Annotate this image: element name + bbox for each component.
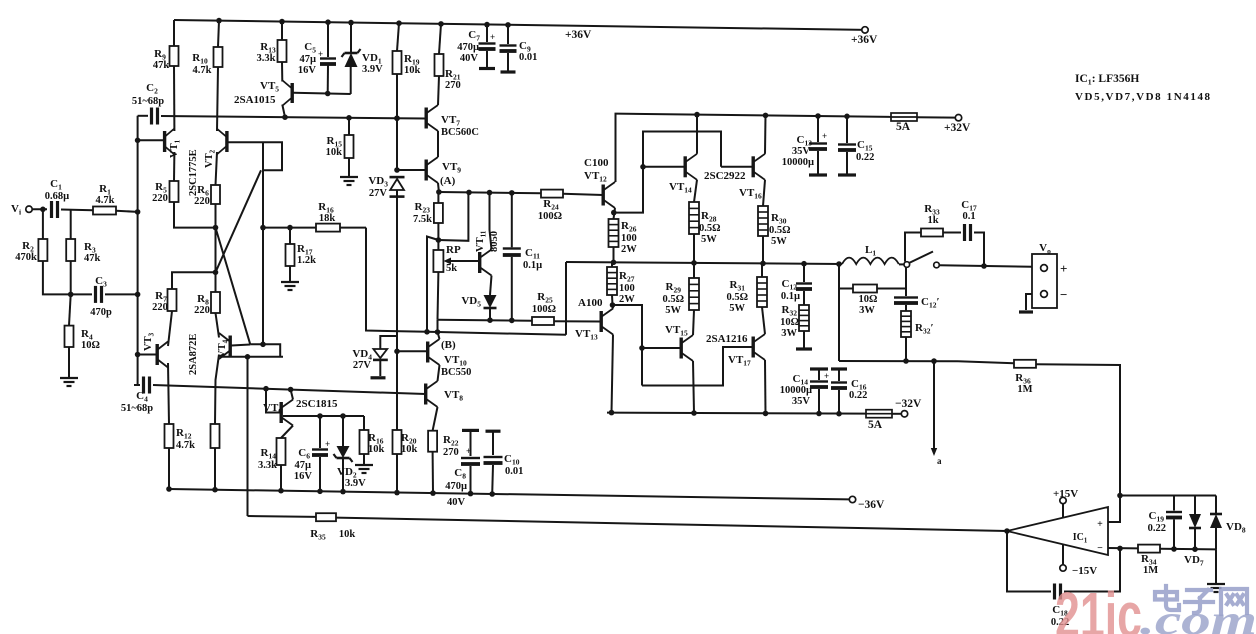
wire VD5 to line1 (489, 308, 491, 320)
resistor R22 270 (428, 431, 437, 452)
wire VT14 collector riser (696, 115, 698, 154)
transistor VT2 2SC1775E (225, 131, 228, 152)
wire C3 to input column (105, 293, 138, 295)
resistor R5 220 (170, 181, 179, 202)
svg-text:47k: 47k (153, 60, 170, 71)
svg-text:−15V: −15V (1072, 565, 1097, 577)
transistor VT6 2SC1815 (280, 402, 283, 423)
svg-text:5W: 5W (771, 236, 787, 247)
svg-text:−32V: −32V (895, 398, 922, 410)
svg-text:0.5Ω: 0.5Ω (769, 225, 791, 236)
wire VT14 emitter to R28 (694, 180, 697, 202)
resistor R1 4.7k (93, 207, 116, 215)
wire R33 to C17 (943, 232, 961, 234)
svg-text:+: + (325, 439, 330, 449)
potentiometer RP 5k (437, 240, 439, 250)
wire VT7 collector to VT9 (437, 131, 439, 157)
resistor R21 270 (438, 21, 444, 27)
svg-text:51~68p: 51~68p (121, 403, 153, 414)
svg-text:+36V: +36V (565, 29, 592, 41)
svg-text:+: + (490, 32, 495, 42)
transistor VT12 C100 (602, 185, 605, 206)
wire +32V bus (616, 114, 891, 117)
resistor R14 3.3k (277, 438, 286, 465)
svg-text:2W: 2W (619, 294, 635, 305)
capacitor C11 0.1u (511, 193, 513, 247)
speaker terminal Vo box (1032, 254, 1057, 308)
wire VT13 node to VT15 base (613, 305, 643, 386)
wire RP wiper to VT11 base (449, 260, 478, 262)
resistor R17 1.2k (289, 228, 291, 244)
terminal -36V (849, 496, 855, 502)
wire cross-couple diagonal A (216, 170, 262, 272)
wire jog to bootstrap column (427, 237, 438, 332)
capacitor C12' (894, 296, 918, 298)
svg-text:BC560C: BC560C (441, 127, 479, 138)
capacitor C15 0.22 (844, 114, 850, 120)
transistor VT5 2SA1015 (281, 62, 283, 82)
svg-text:16V: 16V (298, 65, 317, 76)
resistor R33 1k (921, 229, 943, 237)
wire lower jog to VT4 base (250, 344, 280, 357)
svg-text:47µ: 47µ (299, 54, 316, 65)
capacitor C14 10000u 35V (810, 367, 828, 370)
resistor R36 1M (1014, 360, 1036, 368)
wire L1 to switch (899, 263, 904, 265)
wire minus input line (1108, 547, 1138, 549)
svg-text:10000µ: 10000µ (780, 385, 812, 396)
svg-text:220: 220 (152, 193, 168, 204)
wire C17 to output (974, 233, 984, 267)
transistor VT3 2SA872E (156, 344, 159, 365)
wire VD3 to VD4 (396, 190, 398, 338)
capacitor C3 470p (94, 286, 97, 303)
resistor R10 4.7k (216, 18, 222, 24)
resistor R28 0.5ohm 5W (689, 202, 699, 234)
watermark 21ic (1055, 579, 1256, 634)
wire R32 end (803, 331, 805, 348)
wire R3 to C3 line (70, 261, 72, 294)
svg-text:220: 220 (194, 196, 210, 207)
wire VT17 top to R31 (762, 307, 765, 334)
resistor R32' (905, 305, 907, 311)
wire R25 to VT13 base (554, 320, 601, 322)
svg-text:0.22: 0.22 (849, 390, 867, 401)
wire switch to Vo (940, 265, 1033, 267)
svg-text:4.7k: 4.7k (96, 195, 115, 206)
wire B line C4 to VT8 base (153, 385, 426, 394)
transistor VT7 BC560C (425, 108, 428, 129)
wire VD4 node to VT10 base (397, 338, 428, 351)
wire R29 to bus (693, 263, 695, 278)
svg-text:100: 100 (619, 283, 635, 294)
node op-amp output (1004, 528, 1010, 534)
svg-text:(B): (B) (441, 339, 456, 351)
switch contact (934, 262, 940, 268)
wire VT2 emitter to R6 (216, 152, 218, 185)
svg-text:1k: 1k (927, 215, 938, 226)
wire to rail (214, 448, 216, 490)
wire output bus (566, 262, 842, 264)
svg-text:3.3k: 3.3k (257, 53, 276, 64)
svg-text:2SC1815: 2SC1815 (296, 398, 338, 410)
wire y361 line (839, 360, 958, 362)
svg-text:0.1µ: 0.1µ (781, 291, 800, 302)
wire VT4 base stub (232, 345, 251, 346)
svg-text:(A): (A) (440, 175, 456, 187)
wire R19 to VD3 (396, 74, 398, 171)
wire base drop x263 (262, 142, 264, 344)
wire R16 corner riser (366, 228, 427, 332)
capacitor C6 47u 16V (319, 416, 321, 448)
ground below R17 (289, 266, 291, 281)
svg-text:0.1: 0.1 (962, 211, 975, 222)
svg-text:10Ω: 10Ω (859, 294, 878, 305)
svg-text:+32V: +32V (944, 122, 971, 134)
wire R2 to C3 line (43, 261, 92, 294)
svg-text:0.5Ω: 0.5Ω (726, 292, 748, 303)
resistor R34 1M (1138, 545, 1160, 553)
svg-text:VD5,VD7,VD8 1N4148: VD5,VD7,VD8 1N4148 (1075, 91, 1212, 103)
wire VT16 collector riser (764, 115, 767, 153)
wire VT16 emitter to R30 (763, 180, 765, 206)
wire R12 to rail (168, 448, 170, 489)
wire -32V rail (607, 413, 866, 414)
wire VT5 base line to C5/VD1 (294, 93, 351, 94)
svg-text:C100: C100 (584, 157, 609, 169)
wire feedback to C18 (1007, 531, 1051, 592)
wire riser to R33 (905, 233, 921, 262)
svg-text:27V: 27V (369, 188, 388, 199)
capacitor C16 0.22 (831, 367, 847, 370)
svg-text:−: − (1060, 287, 1067, 302)
svg-text:10k: 10k (404, 65, 421, 76)
svg-text:16V: 16V (294, 471, 313, 482)
transistor VT15 (680, 338, 683, 359)
svg-text:35V: 35V (792, 396, 811, 407)
svg-text:5W: 5W (665, 305, 681, 316)
wire riser left zobel (838, 264, 840, 361)
svg-text:10k: 10k (326, 147, 343, 158)
wire +15V supply (1062, 504, 1064, 518)
svg-text:10Ω: 10Ω (780, 317, 799, 328)
wire VT11 collector to A line (490, 193, 492, 250)
terminal -32V (901, 411, 907, 417)
wire C2 branch on base line (138, 115, 148, 117)
wire lower line y356.8 (220, 356, 283, 358)
wire R20 to rail (396, 454, 398, 493)
svg-text:0.5Ω: 0.5Ω (699, 223, 721, 234)
svg-text:1M: 1M (1017, 384, 1032, 395)
wire VT17 bottom to rail (764, 360, 767, 413)
wire R27 leads (611, 262, 613, 267)
capacitor C8 470u 40V (462, 429, 479, 432)
svg-text:+: + (824, 371, 829, 381)
resistor R19 10k (396, 20, 402, 26)
wire VT2 base jog (228, 142, 282, 170)
wire VT3 emitter to R7 (168, 311, 172, 346)
svg-text:270: 270 (445, 80, 461, 91)
svg-text:470p: 470p (90, 307, 112, 318)
wire resistor to C12' node (877, 288, 906, 290)
wire bias line1 (438, 320, 533, 321)
resistor R35 10k (248, 515, 317, 518)
svg-text:IC1: LF356H: IC1: LF356H (1075, 73, 1139, 87)
svg-text:5W: 5W (701, 234, 717, 245)
op-amp IC1 LF356H (1007, 507, 1108, 555)
resistor R16b 10k (363, 416, 365, 430)
wire VT13 collector node (612, 305, 615, 309)
wire emitter node to base rectangle (614, 132, 721, 213)
terminal +36V right (862, 27, 868, 33)
ground below R15 (348, 158, 350, 176)
zener VD2 3.9V (342, 416, 344, 446)
transistor VT17 2SA1216 (752, 337, 755, 358)
svg-text:2SA1015: 2SA1015 (234, 94, 276, 106)
capacitor C9 0.01 (505, 22, 511, 28)
svg-text:+15V: +15V (1053, 488, 1078, 500)
wire R32' to y361 line (905, 337, 907, 361)
zener VD1 3.9V (348, 20, 354, 26)
svg-text:5W: 5W (729, 303, 745, 314)
wire VT6 bias line y416 (283, 415, 364, 417)
switch pivot (904, 262, 910, 268)
resistor R29 0.5ohm 5W (689, 278, 699, 310)
svg-text:3.9V: 3.9V (362, 64, 383, 75)
svg-text:100Ω: 100Ω (532, 304, 556, 315)
capacitor C5 47u 16V (325, 19, 331, 25)
node Vi-R2 junction (40, 207, 46, 213)
wire VT6 base from B line (266, 389, 280, 413)
resistor R13b under VT4 (211, 424, 220, 448)
svg-text:10k: 10k (368, 444, 385, 455)
svg-text:0.22: 0.22 (856, 152, 874, 163)
wire VT12 emitter node (614, 208, 616, 219)
svg-text:470µ: 470µ (457, 42, 479, 53)
resistor R23 7.5k (437, 192, 439, 203)
wire input to C1 (32, 208, 47, 210)
svg-text:+: + (1060, 261, 1067, 276)
svg-text:27V: 27V (353, 360, 372, 371)
resistor R20 10k (396, 351, 398, 430)
capacitor C1 0.68u (50, 201, 53, 218)
wire VT6 emitter to R14 (281, 426, 293, 439)
svg-text:220: 220 (194, 305, 210, 316)
svg-text:10k: 10k (401, 444, 418, 455)
svg-text:0.22: 0.22 (1148, 523, 1166, 534)
resistor R26 100 2W (609, 219, 619, 247)
svg-text:40V: 40V (447, 497, 466, 508)
wire R14 to rail (280, 465, 282, 491)
resistor R4 10ohm (69, 294, 71, 325)
wire VT8 emitter to R22 (433, 407, 438, 431)
capacitor C18 0.22 (1053, 584, 1056, 600)
wire R34 to diode network (1160, 548, 1216, 551)
wire R28 to bus (693, 234, 695, 263)
resistor R6 220 (211, 185, 220, 204)
svg-text:35V: 35V (792, 146, 811, 157)
wire VT10 collector to line1 (438, 320, 440, 339)
svg-text:3W: 3W (859, 305, 875, 316)
fuse 5A top (891, 113, 917, 121)
svg-text:10k: 10k (339, 529, 356, 540)
wire R35 riser from VT4 node (247, 357, 249, 516)
resistor R25 100ohm (532, 317, 554, 325)
svg-text:51~68p: 51~68p (132, 96, 164, 107)
svg-text:2SA1216: 2SA1216 (706, 333, 748, 345)
resistor R16 18k (316, 224, 340, 232)
resistor R15 10k (348, 118, 350, 135)
svg-text:4.7k: 4.7k (193, 65, 212, 76)
resistor R30 0.5ohm 5W (758, 206, 768, 236)
capacitor C7 470u 40V (484, 22, 490, 28)
wire VT15 bottom to rail (693, 361, 694, 413)
resistor R8 220 (211, 292, 220, 313)
zener VD3 27V (390, 176, 405, 179)
svg-text:0.68µ: 0.68µ (45, 191, 69, 202)
capacitor C12 0.1u (803, 264, 805, 282)
capacitor C17 0.1 (963, 224, 966, 241)
wire node to riser A-line (438, 192, 468, 240)
transistor VT8 (424, 384, 427, 405)
wire R9 lead to VT1 collector (173, 66, 175, 131)
svg-text:100: 100 (621, 233, 637, 244)
wire base line C2 to VT7 base (161, 116, 426, 119)
wire -36V rail (169, 489, 849, 499)
transistor VT4 2SA872E (229, 336, 232, 357)
svg-text:4.7k: 4.7k (176, 440, 195, 451)
svg-text:47µ: 47µ (294, 460, 311, 471)
svg-text:18k: 18k (319, 213, 336, 224)
svg-text:10000µ: 10000µ (782, 157, 814, 168)
watermark chinese dianziwang (1155, 586, 1247, 614)
ground below R4 (68, 347, 70, 377)
svg-text:−: − (1097, 543, 1103, 554)
wire R36 to +input riser (1036, 364, 1120, 522)
wire base node to R16 (263, 227, 316, 229)
resistor R12 4.7k (165, 424, 174, 448)
svg-text:a: a (937, 456, 942, 466)
transistor VT1 2SC1775E (163, 131, 166, 152)
svg-text:2SA872E: 2SA872E (188, 334, 199, 375)
transistor VT11 8050 (478, 252, 481, 273)
wire R1 to input column (116, 211, 138, 212)
wire R21 to VT7 (438, 76, 439, 105)
svg-text:0.01: 0.01 (505, 466, 523, 477)
wire VT6 collector to B line (291, 390, 293, 400)
capacitor C10 0.01 (486, 430, 501, 433)
wire VT13 emitter to rail (612, 335, 614, 413)
svg-text:2W: 2W (621, 244, 637, 255)
wire R2 branch (42, 209, 44, 239)
svg-text:220: 220 (152, 302, 168, 313)
ground at Vo (1026, 294, 1032, 310)
wire cross-couple diagonal B (216, 228, 251, 345)
transistor VT16 2SC2922 (752, 156, 755, 177)
svg-text:470k: 470k (15, 252, 37, 263)
wire VT3 collector to R12 (168, 363, 169, 424)
diode VD5 (484, 295, 497, 308)
wire feedback long line to IC (336, 518, 1007, 531)
wire to VT17 base (642, 347, 752, 386)
resistor R7 220 (168, 289, 177, 311)
svg-text:270: 270 (443, 447, 459, 458)
svg-text:10Ω: 10Ω (81, 340, 100, 351)
wire VT10 emitter to VT8 (438, 365, 440, 381)
wire VT14 base (643, 166, 684, 168)
wire VT12 collector riser (615, 114, 618, 182)
svg-text:7.5k: 7.5k (413, 214, 432, 225)
transistor VT14 2SC2922 (684, 156, 687, 177)
wire -15V supply (1062, 544, 1064, 564)
wire bootstrap line2 (427, 332, 566, 335)
resistor R13 3.3k (279, 19, 285, 25)
svg-text:+: + (822, 131, 827, 141)
svg-text:0.01: 0.01 (519, 52, 537, 63)
transistor VT10 BC550 (426, 342, 429, 363)
wire from switch node down (905, 267, 907, 296)
svg-text:+: + (466, 446, 471, 456)
svg-text:3.3k: 3.3k (258, 460, 277, 471)
svg-text:2SC2922: 2SC2922 (704, 170, 746, 182)
capacitor C2 51-68p (150, 108, 153, 125)
capacitor C19 0.22 (1173, 496, 1175, 511)
svg-text:5k: 5k (446, 263, 457, 274)
resistor R31 0.5ohm 5W (757, 277, 767, 307)
wire VT9 emitter to node A (437, 183, 440, 192)
wire connector a (933, 361, 935, 449)
wire VT1 base from input column (138, 139, 163, 141)
zener VD4 27V (380, 336, 397, 349)
wire C1 to R1 (61, 209, 93, 212)
svg-text:470µ: 470µ (445, 481, 467, 492)
terminal +32V (955, 115, 961, 121)
svg-text:100Ω: 100Ω (538, 211, 562, 222)
svg-text:1M: 1M (1143, 565, 1158, 576)
wire VT16 base (721, 166, 752, 168)
wire R22 to rail (432, 452, 434, 493)
diode VD8 (1215, 496, 1217, 515)
svg-text:40V: 40V (460, 53, 479, 64)
fuse 5A bottom (866, 410, 892, 418)
resistor R2 470k (38, 239, 47, 261)
svg-text:+36V: +36V (851, 34, 878, 46)
svg-text:21ic: 21ic (1055, 579, 1142, 634)
diode VD7 (1194, 496, 1196, 515)
ground below R16b (363, 454, 365, 464)
resistor 10ohm 3W bypass (839, 288, 853, 290)
wire VT11 emitter to VD5 (490, 276, 492, 296)
transistor VT9 (425, 160, 428, 181)
resistor R3 47k (70, 209, 72, 239)
node R6/R8 lower (213, 270, 219, 276)
wire R30 to bus (762, 236, 764, 263)
wire RP bottom to line1 (437, 272, 440, 320)
capacitor C13 10000u 35V (815, 113, 821, 119)
node R6/R8 upper (213, 225, 219, 231)
wire R24 to VT12 base (563, 194, 603, 195)
ground of diode network (1215, 549, 1217, 583)
wire +36V rail (174, 20, 865, 30)
wire diode network top line (1120, 495, 1216, 497)
svg-text:0.5Ω: 0.5Ω (662, 294, 684, 305)
svg-text:3W: 3W (781, 328, 797, 339)
wire R7 top to lower node (172, 272, 216, 289)
wire R23 bottom node (437, 223, 439, 240)
svg-text:47k: 47k (84, 253, 101, 264)
terminal Vi input (26, 206, 32, 212)
resistor R32 10ohm 3W (799, 305, 809, 331)
